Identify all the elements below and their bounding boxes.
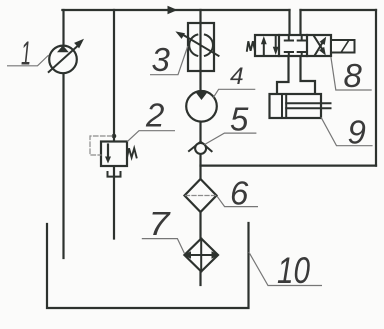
leader label 10 — [249, 252, 322, 286]
pump P1 outlet triangle — [57, 45, 69, 52]
cooler HE7 double arrow — [188, 254, 214, 256]
throttle valve TH3 adjust arrow — [183, 35, 219, 56]
wire: motor to check valve — [199, 122, 201, 144]
leader lines — [7, 46, 373, 286]
relief valve R2 body — [101, 142, 127, 167]
pump P1 circle — [49, 46, 77, 74]
leader label 7 — [142, 239, 185, 254]
leader label 3 — [150, 46, 188, 75]
throttle valve TH3 left arc — [189, 35, 197, 56]
flow arrow on supply line — [168, 6, 178, 14]
hydraulic motor M4 circle — [186, 91, 217, 122]
relief valve R2 internal arrow — [107, 145, 109, 158]
cylinder C9 piston — [281, 94, 283, 118]
wire: pump outlet riser — [62, 10, 64, 46]
filter F6 element (dashed) — [186, 195, 216, 197]
directional valve DV8 left position down arrow — [275, 35, 277, 49]
svg-text:5: 5 — [230, 101, 249, 138]
wire: check valve to filter — [199, 154, 201, 179]
cooler HE7 line through — [200, 239, 202, 272]
svg-text:6: 6 — [230, 174, 249, 211]
cooler HE7 diamond — [184, 239, 218, 272]
wire: valve port A to cylinder — [277, 56, 289, 94]
relief valve R2 junction dot — [112, 134, 117, 139]
svg-text:8: 8 — [344, 57, 363, 94]
directional valve DV8 center blocked port top-left — [285, 35, 293, 41]
throttle valve TH3 body — [188, 23, 214, 71]
directional valve DV8 divider right — [306, 35, 308, 56]
svg-text:3: 3 — [152, 41, 171, 78]
wire: valve port B to cylinder — [301, 56, 316, 94]
relief valve R2 drain tank symbol — [108, 172, 121, 177]
directional valve DV8 divider left — [278, 35, 280, 56]
leader label 1 — [7, 55, 49, 66]
wire: return line right riser — [375, 10, 377, 166]
directional valve DV8 center blocked port bottom-right — [298, 52, 306, 56]
leader label 6 — [217, 196, 258, 206]
leader label 9 — [321, 117, 373, 146]
wire: return line horizontal — [201, 165, 377, 167]
leader label 5 — [204, 133, 256, 145]
directional valve DV8 body — [255, 35, 331, 56]
directional valve DV8 center blocked port top-right — [298, 35, 306, 41]
svg-text:4: 4 — [230, 63, 244, 90]
leader label 4 — [213, 89, 255, 97]
wire: cooler outlet into tank — [199, 272, 201, 286]
filter F6 diamond — [185, 179, 217, 212]
check valve CV5 seat — [189, 142, 212, 152]
directional valve DV8 solenoid — [331, 40, 355, 53]
pump P1 variable arrow — [49, 46, 78, 72]
leader label 8 — [331, 57, 372, 90]
directional valve DV8 left position up arrow — [263, 41, 265, 56]
svg-text:9: 9 — [348, 114, 366, 151]
wire: valve T-port riser — [299, 10, 301, 35]
wire: throttle branch vertical — [199, 10, 201, 91]
svg-text:7: 7 — [149, 205, 172, 242]
tank T10 outline — [47, 223, 249, 308]
svg-text:2: 2 — [145, 97, 164, 134]
cylinder C9 barrel — [270, 94, 322, 118]
wire: top supply line — [62, 9, 289, 11]
relief valve R2 spring — [127, 148, 137, 157]
hydraulic motor M4 inlet triangle — [195, 92, 208, 100]
wire: pump suction into tank — [62, 73, 64, 258]
wire: relief branch riser — [113, 10, 115, 142]
directional valve DV8 spring — [247, 41, 255, 51]
svg-text:1: 1 — [21, 34, 31, 71]
relief valve R2 pilot line (dashed) — [90, 136, 112, 155]
directional valve DV8 right position cross arrows — [315, 41, 324, 56]
directional valve DV8 center blocked port bottom-left — [285, 52, 293, 56]
wire: valve P-port riser — [288, 10, 290, 35]
wire: relief valve drain — [113, 166, 115, 239]
check valve CV5 ball — [195, 143, 206, 154]
wire: filter to cooler — [199, 212, 201, 239]
wire: return line top — [301, 9, 377, 11]
leader label 2 — [127, 131, 175, 142]
svg-text:10: 10 — [277, 250, 310, 291]
cylinder C9 rod — [286, 102, 330, 104]
throttle valve TH3 line through — [199, 23, 201, 71]
throttle valve TH3 right arc — [205, 35, 213, 56]
